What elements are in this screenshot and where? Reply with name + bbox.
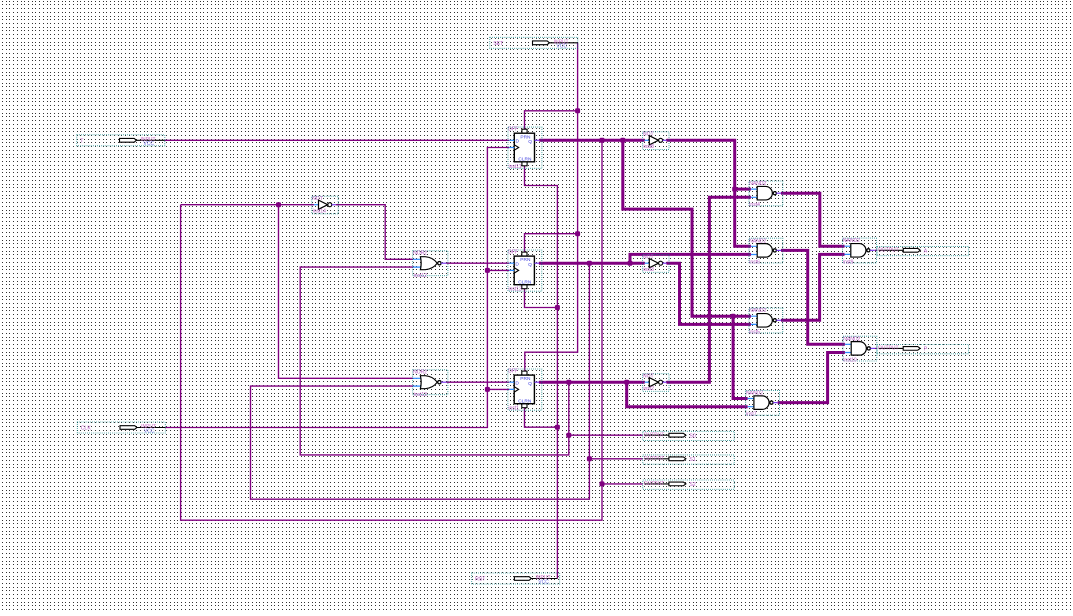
node Q3 junction on Q3 output wire — [566, 380, 571, 385]
svg-text:OUTPUT: OUTPUT — [878, 346, 899, 352]
svg-text:inst13: inst13 — [508, 287, 522, 293]
NAND2 gate inst4 — [749, 181, 783, 208]
node CLK junction DFF3 — [485, 387, 490, 392]
svg-text:SET: SET — [493, 41, 504, 47]
NOT gate not3 (inst2) — [643, 373, 669, 392]
wire S2 output stub from Q1 feedback — [602, 483, 643, 485]
wire S0 output stub from Q3 feedback — [569, 434, 643, 436]
svg-text:inst4: inst4 — [749, 202, 760, 208]
svg-text:inst7: inst7 — [746, 412, 757, 418]
svg-text:P: P — [924, 347, 928, 353]
node S2 junction — [600, 481, 605, 486]
wire branch Q1 down to NAND2 inst7 input A — [733, 316, 748, 398]
D flip-flop dff2 (inst13) — [508, 250, 542, 293]
svg-text:inst9: inst9 — [843, 259, 854, 265]
NAND2 gate inst9 — [843, 238, 877, 265]
svg-text:inst13: inst13 — [414, 392, 428, 398]
node CLRN junction DFF3 — [555, 425, 560, 430]
svg-text:CLRN: CLRN — [518, 398, 532, 404]
svg-text:NOR2: NOR2 — [413, 251, 427, 257]
svg-text:VCC: VCC — [143, 141, 154, 147]
svg-text:DFF: DFF — [508, 127, 518, 133]
node S1 junction — [587, 456, 592, 461]
wire RST/CLRN net: chain of CLRN pins down to RST pin — [525, 166, 558, 579]
wire Q3 branch down to NAND2 inst7 input B — [627, 382, 748, 407]
wire branch Q1 to NOR2 inst13 input A — [279, 205, 414, 379]
svg-text:inst10: inst10 — [843, 357, 857, 363]
svg-text:CLRN: CLRN — [518, 279, 532, 285]
svg-text:Q: Q — [528, 262, 532, 268]
wire NOT inst14 input from Q1 feedback — [181, 204, 314, 206]
svg-text:CLK: CLK — [81, 426, 92, 432]
wire NAND2 inst9 output to output pin A — [875, 249, 877, 251]
wire NAND2 inst10 output to output pin P — [875, 347, 877, 349]
output pin S2 — [643, 480, 734, 489]
wire CLRN branch from DFF inst13 — [525, 289, 558, 308]
wire NAND2 inst5 output to NAND2 inst9 input B — [781, 254, 845, 320]
wire NOT inst8 output down to NAND2 inst6 input A — [667, 140, 751, 246]
svg-text:S2: S2 — [689, 482, 695, 488]
D flip-flop dff1 (inst11) — [508, 127, 542, 170]
svg-text:OUTPUT: OUTPUT — [644, 481, 665, 487]
wire Q3 feedback: from Q3 wire down to S0 and around to NOR2 inst12 input B — [300, 267, 569, 455]
svg-text:DFF: DFF — [508, 369, 518, 375]
svg-text:CLRN: CLRN — [518, 157, 532, 163]
wire NOR2 inst13 output to DFF inst1 D input — [447, 381, 510, 383]
svg-text:D: D — [516, 139, 520, 145]
input pin RST — [472, 573, 560, 585]
svg-text:inst12: inst12 — [414, 273, 428, 279]
wire SET net vertical from SET pin down with branches to PRN pins — [525, 43, 578, 371]
wire CLK branch to DFF inst1 clock — [487, 388, 509, 390]
node Q2 junction on Q2 output wire — [587, 261, 592, 266]
svg-text:inst6: inst6 — [749, 259, 760, 265]
node CLRN junction DFF2 — [555, 305, 560, 310]
input pin T — [77, 135, 165, 147]
output pin S0 — [643, 431, 734, 440]
wire Q3 output bus from DFF inst1 to NOT inst2 — [539, 381, 645, 384]
svg-text:OUTPUT: OUTPUT — [644, 456, 665, 462]
node junction NOT1 output to NAND2 inst4 input A — [732, 187, 737, 192]
input pin SET — [490, 37, 578, 49]
D flip-flop dff3 (inst1) — [508, 369, 542, 412]
node CLK junction DFF2 — [485, 268, 490, 273]
NOR2 gate inst12 — [413, 251, 448, 279]
node Q1 branch junction — [620, 138, 625, 143]
svg-text:S1: S1 — [689, 457, 695, 463]
svg-text:D: D — [515, 262, 519, 268]
node Q1 junction on Q1 output wire — [600, 138, 605, 143]
svg-text:D: D — [515, 381, 519, 387]
wire S1 output stub from Q2 feedback — [589, 458, 642, 460]
wire SET branch to DFF inst13 PRN — [525, 234, 578, 252]
wire Q2 output bus from DFF inst13 to NOT inst3 — [539, 262, 645, 265]
output pin A — [877, 246, 968, 255]
svg-text:RST: RST — [475, 577, 486, 583]
svg-text:Q: Q — [528, 381, 532, 387]
output pin S1 — [643, 455, 734, 464]
NOT gate not14 (inst14) — [312, 196, 338, 215]
svg-text:inst1: inst1 — [508, 406, 519, 412]
wire Q1 feedback: from Q1 wire down to S2 and around to NOT inst14 input — [181, 140, 602, 520]
wire CLRN branch from DFF inst1 — [525, 408, 558, 428]
NOT gate not2 (inst3) — [643, 254, 669, 273]
node junction on inst5 input A wire — [731, 314, 736, 319]
wire NAND2 inst6 output to NAND2 inst10 input A — [781, 250, 845, 344]
NOR2 gate inst13 — [413, 370, 448, 398]
svg-text:inst2: inst2 — [643, 386, 654, 392]
wire Q2 feedback: from Q2 wire down to S1 and around to NOR2 inst13 input B — [251, 263, 590, 499]
svg-text:A: A — [924, 249, 928, 255]
wire T input to DFF inst11 D — [165, 139, 510, 141]
wire branch to NAND2 inst4 input A — [735, 188, 751, 191]
node Q3 branch junction to NAND2 inst7 — [624, 380, 629, 385]
wire Q1 branch down and across to NAND2 inst5 input A — [623, 140, 751, 316]
wire NOT inst3 output down to NAND2 inst5 input B — [667, 263, 751, 324]
NAND2 gate inst7 — [746, 390, 780, 417]
wire CLK branch to DFF inst13 clock — [487, 269, 509, 271]
node junction at NOT inst14 input branch — [276, 202, 281, 207]
wire NAND2 inst7 output to NAND2 inst10 input B — [778, 353, 845, 403]
NAND2 gate inst5 — [749, 308, 783, 335]
svg-text:OUTPUT: OUTPUT — [644, 433, 665, 439]
node S0 junction — [566, 433, 571, 438]
wire NAND2 inst4 output to NAND2 inst9 input A — [781, 193, 845, 246]
svg-text:S0: S0 — [689, 434, 695, 440]
node SET junction at DFF2 branch — [575, 231, 580, 236]
svg-text:inst8: inst8 — [643, 144, 654, 150]
node Q2 branch junction to NAND2 inst6 — [628, 261, 633, 266]
wire NOR2 inst12 output to DFF inst13 D input — [447, 262, 510, 264]
wire CLK net: clock chain to all DFF clock inputs — [165, 148, 509, 428]
svg-text:inst11: inst11 — [509, 164, 522, 170]
svg-text:Q: Q — [528, 139, 532, 145]
svg-text:VCC: VCC — [538, 579, 549, 585]
wire NOT inst2 output up to NAND2 inst4 input B — [667, 197, 751, 382]
wire Q1 output bus from DFF inst11 to NOT inst8 — [539, 139, 645, 142]
wire Q2 branch up to NAND2 inst6 input B — [630, 254, 751, 263]
svg-text:DFF: DFF — [508, 250, 518, 256]
svg-text:VCC: VCC — [556, 44, 567, 50]
output pin P — [877, 345, 968, 354]
NAND2 gate inst10 — [843, 336, 877, 363]
wire NOT inst14 output to NOR2 inst12 input A — [336, 205, 413, 260]
NOT gate not1 (inst8) — [643, 131, 669, 150]
svg-text:inst3: inst3 — [643, 267, 654, 273]
wire SET branch to DFF inst11 PRN — [525, 111, 578, 129]
node SET junction at DFF1 branch — [575, 108, 580, 113]
svg-text:NOR2: NOR2 — [413, 370, 427, 376]
svg-text:VCC: VCC — [144, 428, 155, 434]
svg-text:inst5: inst5 — [749, 329, 760, 335]
input pin CLK — [77, 422, 165, 434]
svg-text:inst14: inst14 — [313, 209, 327, 215]
svg-text:OUTPUT: OUTPUT — [878, 248, 899, 254]
NAND2 gate inst6 — [749, 238, 783, 265]
